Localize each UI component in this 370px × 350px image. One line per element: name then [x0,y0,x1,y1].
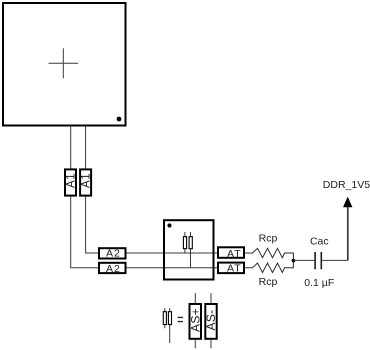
svg-text:AS-: AS- [204,310,218,331]
svg-text:0.1 µF: 0.1 µF [304,277,334,289]
svg-text:AT: AT [227,248,242,260]
svg-text:A1: A1 [81,173,93,188]
svg-text:Rcp: Rcp [259,233,278,245]
svg-text:A1: A1 [66,173,78,188]
svg-text:A2: A2 [106,263,121,275]
svg-text:DDR_1V5: DDR_1V5 [323,179,370,191]
svg-text:Rcp: Rcp [259,276,278,288]
svg-text:Cac: Cac [310,235,329,247]
svg-text:AS+: AS+ [188,308,202,332]
svg-text:AT: AT [227,263,242,275]
svg-text:A2: A2 [106,248,121,260]
